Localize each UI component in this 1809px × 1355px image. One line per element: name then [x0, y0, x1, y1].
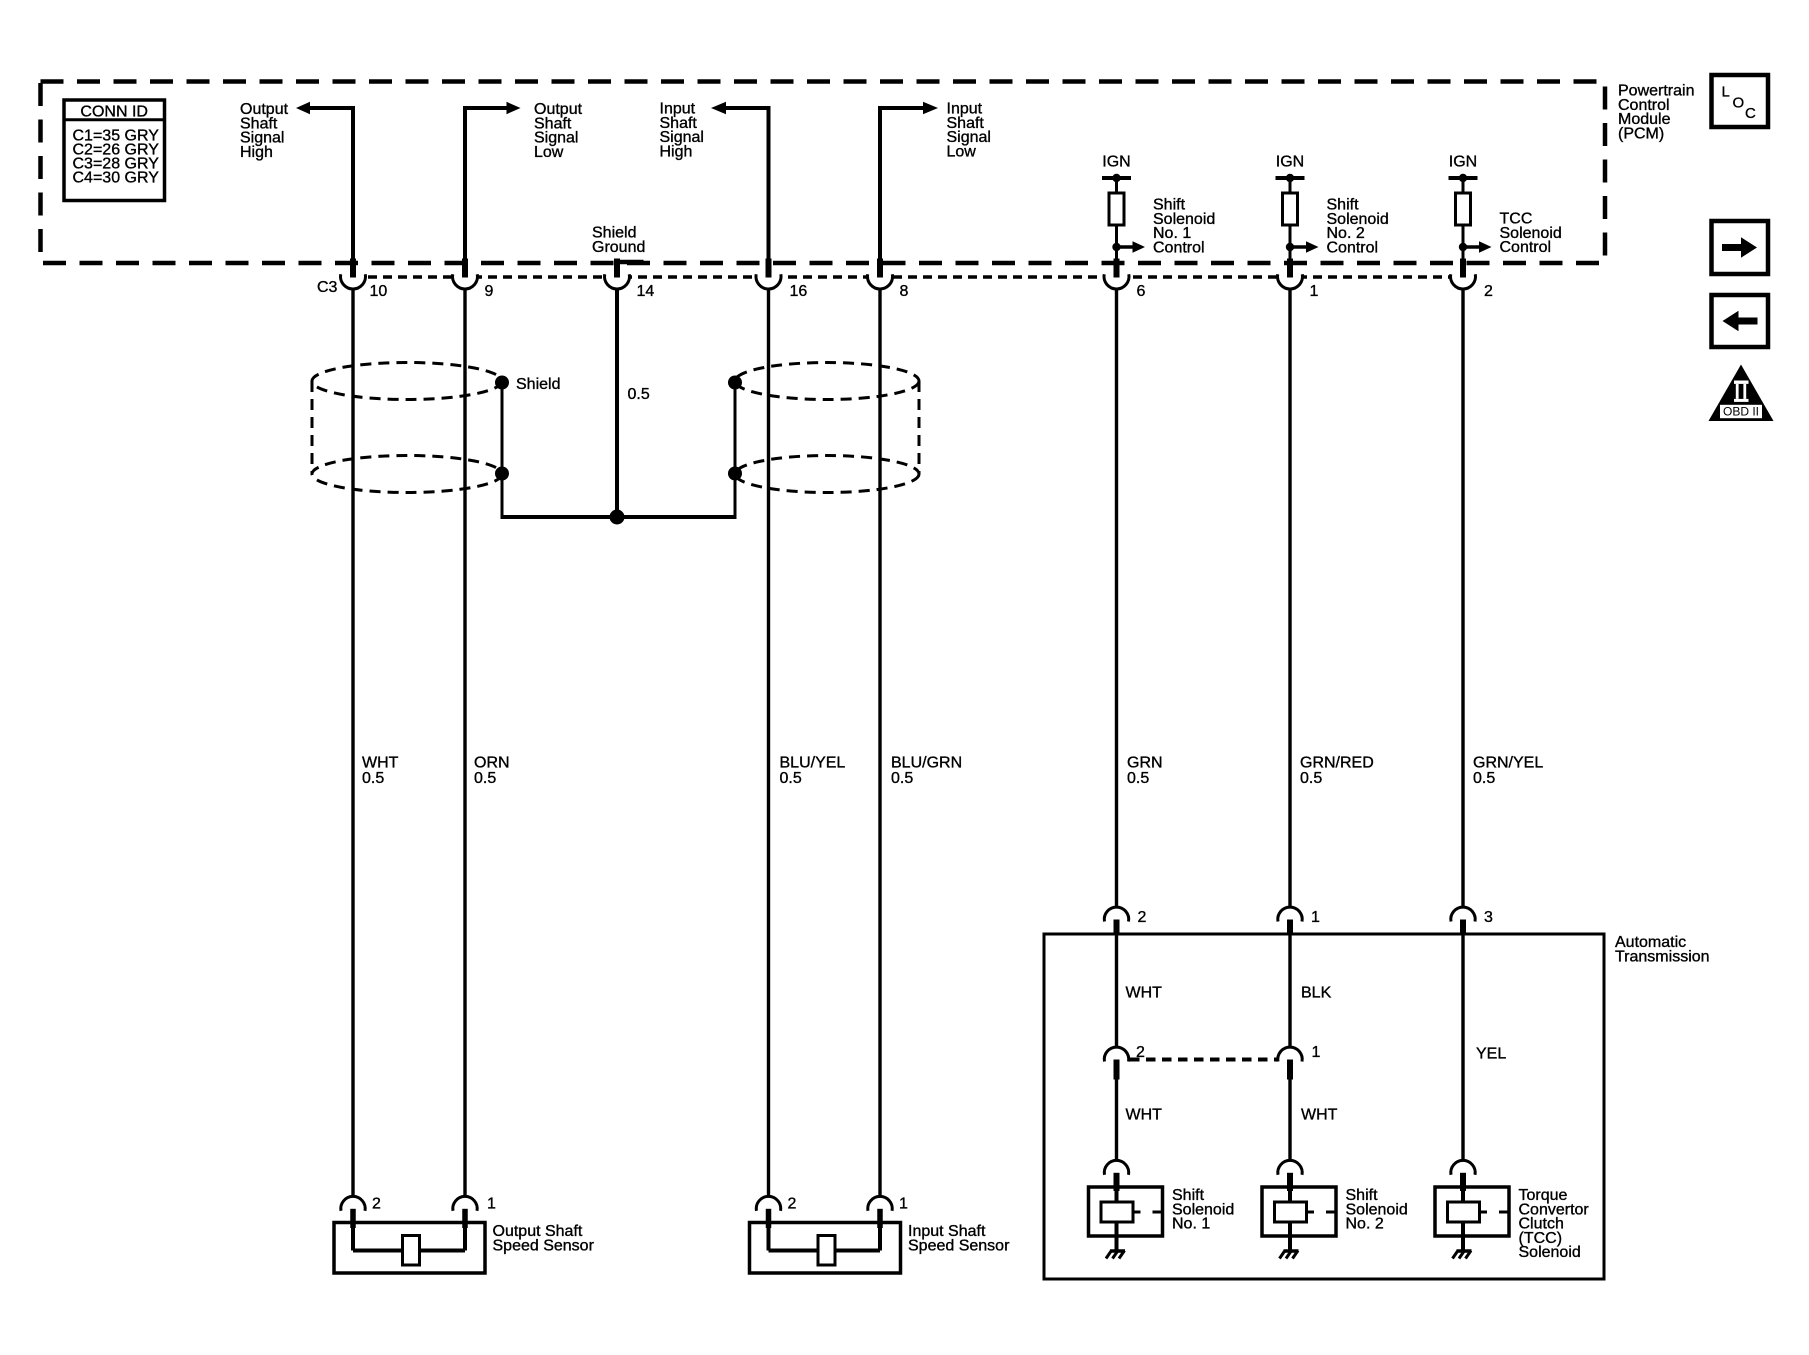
connector transmission terminal pin 1 [1278, 907, 1302, 935]
pin number 1 [899, 1196, 908, 1213]
svg-text:(PCM): (PCM) [1618, 125, 1664, 142]
label Automatic Transmission [1615, 934, 1710, 965]
svg-text:BLK: BLK [1301, 985, 1332, 1002]
pin number 2 [788, 1196, 797, 1213]
legend icon arrow right box [1712, 221, 1769, 274]
label YEL [1476, 1046, 1506, 1063]
power IGN feed at x=1463 [1449, 154, 1478, 195]
svg-text:0.5: 0.5 [362, 770, 384, 787]
pin number 1 [1310, 283, 1319, 300]
Output Shaft Speed Sensor box [334, 1223, 485, 1274]
svg-text:WHT: WHT [1126, 1107, 1163, 1124]
OBD II triangle badge [1709, 365, 1774, 422]
connector Output Shaft sensor pin 1 [453, 1196, 477, 1228]
wire BLU/YEL 0.5 (pin 16 to input sensor pin 2) [767, 290, 770, 1199]
label Torque Convertor Clutch (TCC) Solenoid [1519, 1187, 1590, 1261]
svg-text:WHT: WHT [1126, 985, 1163, 1002]
svg-text:Speed Sensor: Speed Sensor [908, 1237, 1010, 1254]
label WHT [1126, 1107, 1163, 1124]
svg-text:16: 16 [790, 283, 808, 300]
svg-text:WHT: WHT [1301, 1107, 1338, 1124]
label TCC Solenoid Control [1500, 211, 1562, 257]
label C3 connector [317, 279, 338, 296]
label BLK [1301, 985, 1332, 1002]
cable shield left (output sensor pair), dashed cylinder [312, 363, 502, 493]
resistor solenoid coil feed R3 [1456, 193, 1471, 225]
node junction with signal arrow at x=1463 [1459, 241, 1492, 253]
svg-text:8: 8 [900, 283, 909, 300]
solenoid Torque Convertor Clutch (TCC) Solenoid [1435, 1187, 1509, 1251]
label Shield Ground [592, 225, 645, 256]
wire shield drain right [734, 383, 737, 516]
wire GRN/RED 0.5 (pin 1 to transmission pin 1) [1288, 290, 1291, 909]
label Output Shaft Speed Sensor [493, 1223, 595, 1254]
wire shield ground bus [501, 515, 737, 519]
svg-text:10: 10 [370, 283, 388, 300]
label Input Shaft Signal High [660, 101, 704, 161]
wire shield drain 0.5 (pin 14 to shield junction) [615, 290, 619, 518]
wire YEL (trans pin 3 to TCC solenoid) [1461, 934, 1464, 1162]
Automatic Transmission box [1044, 934, 1604, 1279]
pin number 1 [1311, 909, 1320, 926]
power IGN feed at x=1116.5 [1102, 154, 1131, 195]
pin number 2 [1484, 283, 1493, 300]
label WHT [1126, 985, 1163, 1002]
PCM module dashed outline box [41, 82, 1606, 264]
svg-text:Control: Control [1500, 239, 1552, 256]
svg-text:C3: C3 [317, 279, 338, 296]
svg-text:1: 1 [487, 1196, 496, 1213]
pin number 1 [487, 1196, 496, 1213]
svg-text:0.5: 0.5 [1127, 770, 1149, 787]
pin number 16 [790, 283, 808, 300]
dashed connector mating line between inline pins [1130, 1058, 1278, 1062]
connector solenoid terminal at x=1463 [1451, 1160, 1475, 1191]
connector solenoid terminal at x=1116.5 [1104, 1160, 1128, 1191]
svg-text:C4=30 GRY: C4=30 GRY [73, 170, 160, 187]
svg-text:High: High [240, 144, 273, 161]
svg-text:1: 1 [1311, 909, 1320, 926]
connector solenoid terminal at x=1290 [1278, 1160, 1302, 1191]
wire: Input Shaft Signal High lead (pin 16) with left arrow [711, 102, 771, 261]
connector Input Shaft sensor pin 1 [868, 1196, 892, 1228]
svg-text:2: 2 [1138, 909, 1147, 926]
label wire ORN 0.5 [474, 755, 510, 787]
wire shield drain left [501, 383, 504, 516]
svg-text:2: 2 [1484, 283, 1493, 300]
node junction with signal arrow at x=1116.5 [1112, 241, 1145, 253]
svg-text:C: C [1745, 105, 1756, 122]
svg-text:Solenoid: Solenoid [1519, 1244, 1581, 1261]
svg-text:Low: Low [534, 144, 564, 161]
svg-text:0.5: 0.5 [474, 770, 496, 787]
svg-text:6: 6 [1137, 283, 1146, 300]
svg-text:IGN: IGN [1102, 154, 1130, 171]
power IGN feed at x=1290 [1276, 154, 1305, 195]
connector Input Shaft sensor pin 2 [756, 1196, 780, 1228]
svg-text:Shield: Shield [516, 376, 560, 393]
svg-text:0.5: 0.5 [891, 770, 913, 787]
wire WHT (trans pin 2 to inline pin 2) [1115, 934, 1118, 1049]
connector row dashed line (C3 harness connector) [353, 275, 1463, 279]
svg-text:No. 2: No. 2 [1346, 1216, 1384, 1233]
LOC legend box [1712, 75, 1769, 127]
wire: Output Shaft Signal Low lead (pin 9) with right arrow [463, 102, 521, 261]
svg-text:1: 1 [1310, 283, 1319, 300]
svg-text:L: L [1722, 84, 1730, 101]
label Input Shaft Signal Low [947, 101, 991, 161]
label wire WHT 0.5 [362, 755, 399, 787]
connector C3 terminal pin 14 [605, 259, 630, 289]
svg-text:0.5: 0.5 [1473, 770, 1495, 787]
connector C3 terminal pin 16 [756, 259, 781, 289]
Input Shaft Speed Sensor box [750, 1223, 901, 1274]
wire elbow at pin 14 (shield ground into PCM) [615, 260, 644, 265]
label Output Shaft Signal High [240, 101, 289, 161]
svg-text:Ground: Ground [592, 239, 645, 256]
label Output Shaft Signal Low [534, 101, 583, 161]
svg-text:2: 2 [372, 1196, 381, 1213]
wire ORN 0.5 (pin 9 to output sensor pin 1) [463, 290, 466, 1199]
svg-text:IGN: IGN [1449, 154, 1477, 171]
svg-text:O: O [1733, 95, 1745, 112]
svg-text:Low: Low [947, 143, 977, 160]
label wire GRN 0.5 [1127, 755, 1163, 787]
svg-text:High: High [660, 143, 693, 160]
pin number 3 [1484, 909, 1493, 926]
wire: Output Shaft Signal High lead (pin 10) with left arrow [296, 102, 355, 261]
label Input Shaft Speed Sensor [908, 1223, 1010, 1254]
label wire GRN/RED 0.5 [1300, 755, 1374, 787]
svg-text:Transmission: Transmission [1615, 948, 1710, 965]
resistor solenoid coil feed R1 [1109, 193, 1124, 225]
label Shield [516, 376, 560, 393]
connector inline terminal pin 2 [1104, 1047, 1128, 1079]
legend icon arrow left box [1712, 295, 1769, 347]
ground chassis below Shift Solenoid No. 1 [1106, 1251, 1125, 1259]
svg-text:9: 9 [485, 283, 494, 300]
resistor solenoid coil feed R2 [1283, 193, 1298, 225]
ground chassis below Torque Convertor Clutch (TCC) Solenoid [1453, 1251, 1472, 1259]
svg-text:OBD II: OBD II [1723, 404, 1759, 418]
CONN ID table [64, 100, 165, 201]
svg-text:14: 14 [637, 283, 655, 300]
svg-text:0.5: 0.5 [1300, 770, 1322, 787]
pin number 1 [1312, 1044, 1321, 1061]
svg-text:1: 1 [899, 1196, 908, 1213]
node junction with signal arrow at x=1290 [1286, 241, 1319, 253]
connector Output Shaft sensor pin 2 [341, 1196, 365, 1228]
connector C3 terminal pin 6 [1104, 259, 1129, 289]
wire BLK (trans pin 1 to inline pin 1) [1288, 934, 1291, 1049]
label wire BLU/GRN 0.5 [891, 755, 962, 787]
solenoid Shift Solenoid No. 2 [1262, 1187, 1336, 1251]
cable shield right (input sensor pair), dashed cylinder [735, 363, 919, 493]
label Shift Solenoid No. 2 Control [1327, 197, 1389, 257]
ground chassis below Shift Solenoid No. 2 [1280, 1251, 1299, 1259]
label wire GRN/YEL 0.5 [1473, 755, 1543, 787]
label wire BLU/YEL 0.5 [780, 755, 846, 787]
svg-text:Control: Control [1327, 239, 1379, 256]
svg-text:YEL: YEL [1476, 1046, 1506, 1063]
label Shift Solenoid No. 2 [1346, 1187, 1408, 1233]
wire from R1 to PCM pin [1115, 225, 1118, 261]
connector C3 terminal pin 1 [1278, 259, 1303, 289]
label Shift Solenoid No. 1 Control [1153, 197, 1215, 257]
svg-text:1: 1 [1312, 1044, 1321, 1061]
svg-text:0.5: 0.5 [780, 770, 802, 787]
pin number 8 [900, 283, 909, 300]
svg-text:Speed Sensor: Speed Sensor [493, 1237, 595, 1254]
connector transmission terminal pin 3 [1451, 907, 1475, 935]
node shield taps right [728, 376, 742, 481]
label Powertrain Control Module (PCM) [1618, 83, 1694, 143]
wire WHT 0.5 (pin 10 to output sensor pin 2) [351, 290, 354, 1199]
svg-text:2: 2 [788, 1196, 797, 1213]
label Shift Solenoid No. 1 [1172, 1187, 1234, 1233]
svg-text:Control: Control [1153, 239, 1205, 256]
wire: Input Shaft Signal Low lead (pin 8) with right arrow [878, 102, 938, 261]
label WHT [1301, 1107, 1338, 1124]
connector C3 terminal pin 9 [453, 259, 478, 289]
connector C3 terminal pin 8 [868, 259, 893, 289]
svg-text:3: 3 [1484, 909, 1493, 926]
connector C3 terminal pin 2 [1451, 259, 1476, 289]
wire WHT (inline pin 1 to shift solenoid 2) [1288, 1080, 1291, 1163]
pin number 10 [370, 283, 388, 300]
svg-text:IGN: IGN [1276, 154, 1304, 171]
pin number 2 [1136, 1044, 1145, 1061]
label 0.5 shield wire gauge [628, 386, 650, 403]
wire GRN/YEL 0.5 (pin 2 to transmission pin 3) [1461, 290, 1464, 909]
pin number 9 [485, 283, 494, 300]
connector inline terminal pin 1 [1278, 1047, 1302, 1079]
pin number 6 [1137, 283, 1146, 300]
node shield taps left [495, 376, 509, 481]
svg-text:CONN ID: CONN ID [80, 104, 148, 121]
svg-text:0.5: 0.5 [628, 386, 650, 403]
node shield ground junction [610, 510, 625, 525]
svg-text:No. 1: No. 1 [1172, 1216, 1210, 1233]
wire WHT (inline pin 2 to shift solenoid 1) [1115, 1080, 1118, 1163]
connector C3 terminal pin 10 [341, 259, 366, 289]
connector transmission terminal pin 2 [1104, 907, 1128, 935]
wire from R2 to PCM pin [1289, 225, 1292, 261]
wire BLU/GRN 0.5 (pin 8 to input sensor pin 1) [878, 290, 881, 1199]
pin number 2 [1138, 909, 1147, 926]
pin number 2 [372, 1196, 381, 1213]
wire GRN 0.5 (pin 6 to transmission pin 2) [1115, 290, 1118, 909]
solenoid Shift Solenoid No. 1 [1089, 1187, 1163, 1251]
wire from R3 to PCM pin [1462, 225, 1465, 261]
pin number 14 [637, 283, 655, 300]
